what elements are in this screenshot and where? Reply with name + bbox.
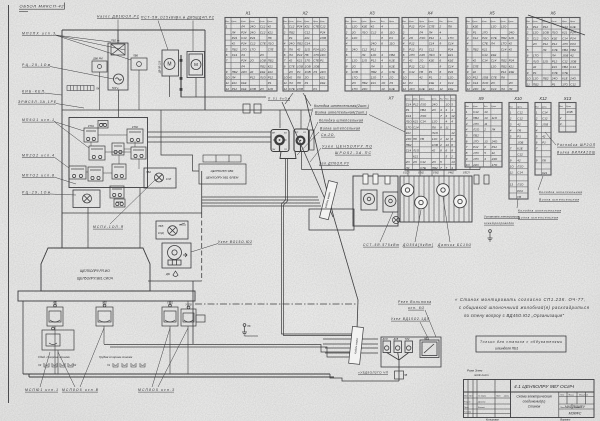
svg-text:2О: 2О [412, 160, 418, 164]
terminal table X9 [465, 103, 502, 168]
svg-text:17О: 17О [352, 76, 358, 80]
clamp Х3 b [52, 363, 57, 367]
leader to plug b [309, 122, 318, 141]
svg-text:Л4: Л4 [491, 128, 496, 132]
svg-text:24О: 24О [240, 70, 247, 74]
svg-text:ЦЕН5ОЛРУ.9В1 ФЛЕМ: ЦЕН5ОЛРУ.9В1 ФЛЕМ [206, 176, 239, 180]
control cabinet box [69, 118, 148, 188]
svg-text:42: 42 [482, 87, 486, 91]
leader РЦ lower [50, 194, 76, 195]
svg-text:С7Е: С7Е [389, 70, 396, 74]
svg-text:Дата: Дата [503, 396, 509, 398]
svg-text:Л1О: Л1О [361, 30, 369, 34]
limit switch У301 [162, 304, 178, 326]
svg-text:2: 2 [380, 70, 383, 74]
fan line X2 bottom b [303, 93, 311, 106]
svg-text:Дроздов: Дроздов [477, 401, 485, 404]
svg-text:1О: 1О [226, 76, 231, 80]
svg-text:1ОВ: 1ОВ [313, 64, 319, 68]
ls drop 3 [169, 326, 171, 374]
terminal table X10 [509, 103, 528, 200]
label У5Д50Л2ГО ЧП [358, 371, 389, 375]
svg-text:Климов: Климов [478, 407, 485, 409]
svg-text:Цепь: Цепь [352, 21, 357, 23]
svg-text:С12: С12 [429, 47, 435, 51]
svg-text:С14: С14 [305, 42, 311, 46]
svg-text:24О: 24О [472, 163, 479, 167]
svg-text:Р1: Р1 [320, 59, 324, 63]
svg-text:13: 13 [451, 160, 455, 164]
label Эл.м ДВ5ШД4П.РС [176, 16, 215, 20]
solenoid valve У5 [454, 195, 467, 208]
ls stub 2 [103, 301, 105, 306]
note установка электропроводки 2 [484, 221, 514, 225]
limit switch У30В [181, 306, 196, 326]
svg-text:Вилка ВИЛКА2ОШ: Вилка ВИЛКА2ОШ [557, 151, 595, 155]
svg-text:№ докум.: № докум. [478, 395, 487, 398]
label Узел ВО150.Ю2 [218, 240, 252, 244]
note Зел ДП60ЛРУ [319, 162, 350, 166]
mid bus y347 [110, 347, 352, 357]
leader МП202 [54, 157, 69, 168]
svg-text:12: 12 [451, 114, 455, 118]
svg-text:24О: 24О [249, 25, 256, 29]
machine boundary right upper [204, 30, 206, 110]
svg-text:У3б2: У3б2 [433, 172, 439, 175]
relay КТ61 [84, 128, 98, 142]
svg-text:Х1: Х1 [106, 363, 111, 367]
note вилка штепс [320, 127, 360, 131]
svg-text:С12: С12 [305, 30, 311, 34]
svg-text:К21: К21 [413, 154, 418, 158]
svg-text:1ОВ: 1ОВ [432, 143, 438, 147]
svg-text:ПБ2: ПБ2 [268, 59, 274, 63]
wire group to cable tag 1 [202, 196, 318, 198]
svg-text:Л4: Л4 [428, 30, 433, 34]
svg-text:5ОГц: 5ОГц [112, 86, 119, 90]
svg-text:11О: 11О [432, 120, 438, 124]
svg-text:1ОВ: 1ОВ [250, 87, 256, 91]
svg-text:Л1О: Л1О [532, 59, 540, 63]
svg-text:У3О1: У3О1 [167, 302, 174, 305]
svg-text:12: 12 [226, 87, 230, 91]
svg-text:Р12: Р12 [543, 42, 549, 46]
svg-text:Р24: Р24 [241, 59, 247, 63]
svg-text:ДО55А[9кВт]: ДО55А[9кВт] [402, 243, 433, 247]
svg-text:11: 11 [527, 82, 530, 86]
svg-text:С7Е: С7Е [552, 71, 559, 75]
svg-text:С14: С14 [482, 59, 488, 63]
svg-text:24О: 24О [472, 87, 479, 91]
svg-text:ВН: ВН [272, 133, 275, 135]
x9 stub [469, 167, 471, 170]
svg-text:С14: С14 [241, 36, 247, 40]
svg-text:С7Е: С7Е [562, 71, 569, 75]
terminal table X1 [225, 18, 277, 92]
svg-text:КТ61: КТ61 [88, 124, 95, 128]
svg-text:К21: К21 [297, 59, 302, 63]
fan leader 3 [55, 35, 131, 60]
svg-text:Цепь: Цепь [313, 21, 318, 23]
fuse right 1 [474, 175, 479, 184]
fuse stack 3 [385, 176, 390, 184]
terminal table X5 [466, 18, 518, 92]
svg-text:Р1: Р1 [419, 47, 423, 51]
svg-text:Р1: Р1 [473, 30, 477, 34]
svg-text:12: 12 [403, 87, 407, 91]
svg-text:Л4: Л4 [361, 53, 366, 57]
motor M2 drop [195, 78, 197, 98]
svg-text:С7Е: С7Е [482, 42, 489, 46]
svg-text:13: 13 [484, 139, 488, 143]
svg-text:Масса: Масса [569, 395, 575, 397]
label МП702 исп.8 [22, 174, 54, 178]
svg-text:С12: С12 [517, 110, 523, 114]
svg-text:ПБ2: ПБ2 [362, 81, 368, 85]
label Датчик БС150 [437, 243, 472, 247]
junction box ДВ6 [92, 61, 107, 72]
svg-text:ПБ2: ПБ2 [389, 53, 395, 57]
note узел ЦЕН50ЛРУ.ПО [322, 145, 372, 149]
note колодка штепс [319, 119, 363, 123]
svg-text:Р12: Р12 [371, 47, 377, 51]
leader to fuses [310, 148, 321, 162]
svg-text:1О: 1О [446, 102, 451, 106]
label Узел ВД1502.1ДЛ [391, 317, 430, 321]
svg-text:11О: 11О [533, 77, 539, 81]
svg-text:Л4: Л4 [508, 87, 513, 91]
svg-text:2О: 2О [431, 160, 437, 164]
svg-text:17О: 17О [473, 157, 479, 161]
svg-text:К21: К21 [268, 30, 273, 34]
leader распайка to X13 [545, 132, 556, 145]
svg-text:Л1О: Л1О [267, 42, 275, 46]
svg-text:ДВ-5Я О25: ДВ-5Я О25 [159, 60, 162, 74]
svg-text:Р24: Р24 [570, 36, 576, 40]
svg-text:Колодка штепсельная: Колодка штепсельная [319, 119, 363, 123]
clamp Х1 b [122, 363, 127, 367]
svg-text:шпинделя ПБ1: шпинделя ПБ1 [495, 347, 518, 351]
svg-text:Р12: Р12 [409, 64, 415, 68]
fan line X2 bottom a [285, 93, 293, 104]
svg-text:Цепь: Цепь [508, 21, 513, 23]
svg-text:К21: К21 [268, 70, 273, 74]
svg-text:12: 12 [446, 137, 450, 141]
wire bus y110 machine bottom [62, 109, 312, 111]
relay РВ1 [98, 121, 108, 129]
label МП202 исп.4 [22, 154, 54, 158]
svg-text:Вилка штепсельная: Вилка штепсельная [320, 127, 360, 131]
note колодка штепсельная 2шт [314, 104, 369, 108]
svg-text:Р24: Р24 [232, 36, 238, 40]
svg-text:Цепь: Цепь [409, 21, 414, 23]
svg-text:ДВ6.РМ: ДВ6.РМ [92, 57, 103, 61]
relay РП6 [89, 146, 105, 160]
svg-text:ПБ2: ПБ2 [562, 65, 568, 69]
svg-text:С7Е: С7Е [429, 25, 436, 29]
svg-text:42: 42 [473, 59, 477, 63]
svg-text:С14: С14 [413, 126, 419, 130]
relay МП65 [110, 186, 124, 198]
svg-text:Цепь: Цепь [570, 21, 575, 23]
svg-text:П6: П6 [432, 126, 436, 130]
svg-text:1О: 1О [381, 81, 386, 85]
note колодка штепсельная 2 [518, 209, 561, 213]
svg-text:Цепь: Цепь [491, 21, 496, 23]
svg-text:ПВ2 лк: ПВ2 лк [111, 39, 120, 43]
svg-text:Р24: Р24 [297, 25, 303, 29]
svg-text:1О: 1О [403, 76, 408, 80]
svg-text:24О: 24О [405, 137, 412, 141]
svg-text:Р12: Р12 [250, 76, 256, 80]
svg-text:17О: 17О [562, 42, 568, 46]
svg-text:К21: К21 [305, 25, 310, 29]
svg-text:2: 2 [345, 30, 348, 34]
terminal table X6 [526, 18, 580, 87]
relay РП7 [112, 143, 124, 155]
svg-text:ЛВ6: ЛВ6 [132, 54, 139, 58]
svg-text:ПБ2: ПБ2 [543, 77, 549, 81]
svg-text:42: 42 [533, 65, 537, 69]
svg-text:ЛК: ЛК [95, 87, 100, 91]
leader мсп2 b [80, 328, 104, 387]
fuse stack 1 [363, 174, 368, 184]
svg-text:С14: С14 [406, 114, 412, 118]
svg-text:П6: П6 [413, 137, 417, 141]
svg-text:24О: 24О [418, 53, 425, 57]
svg-text:Р1: Р1 [533, 71, 537, 75]
svg-text:Р12: Р12 [473, 76, 479, 80]
note СЯ-20 [321, 133, 335, 137]
terminal table X4 [402, 18, 458, 92]
svg-text:ПБ2: ПБ2 [473, 47, 479, 51]
svg-text:Цепь: Цепь [320, 21, 325, 23]
terminal table X12 [535, 103, 551, 176]
svg-text:КИБ-КЕП: КИБ-КЕП [22, 90, 45, 94]
svg-text:С7Е: С7Е [491, 36, 498, 40]
solenoid valve 2 [383, 192, 398, 212]
svg-text:Листов: Листов [573, 407, 581, 409]
svg-text:Х3: Х3 [37, 363, 42, 367]
box ДВ6 drop [99, 72, 101, 110]
label МП3ПХ исп.3 [22, 32, 55, 36]
table drop [431, 170, 433, 176]
note вилка штепсельная 2шт [315, 111, 367, 115]
leader to transformer [50, 67, 114, 80]
svg-text:Цепь: Цепь [260, 21, 265, 23]
machine boundary right dashed [201, 213, 203, 281]
svg-text:С12: С12 [371, 30, 377, 34]
ls stub 1 [54, 301, 56, 306]
pump motor M1 [164, 59, 175, 70]
svg-text:Цепь: Цепь [419, 21, 424, 23]
svg-text:Р1: Р1 [268, 81, 272, 85]
internal cabinet wiring [86, 135, 139, 173]
fan leader 1 [55, 35, 111, 42]
svg-text:Р24: Р24 [241, 30, 247, 34]
svg-text:Л1О: Л1О [419, 102, 427, 106]
label ДО55А 9кВт [402, 243, 433, 247]
motor M1 drop [169, 76, 171, 97]
svg-text:ЛБ5: ЛБ5 [157, 224, 164, 228]
svg-text:Р24: Р24 [320, 30, 326, 34]
svg-text:Колодка штепсельная(2шт.): Колодка штепсельная(2шт.) [314, 104, 369, 108]
lamp box ЛБ5 [156, 221, 188, 239]
svg-text:1О: 1О [510, 165, 515, 169]
label ПСТ-5Я 0.25кВт [141, 16, 177, 20]
svg-text:Л1О: Л1О [412, 149, 420, 153]
wire group to cable tag 3 [202, 202, 320, 204]
svg-text:Р12: Р12 [543, 25, 549, 29]
svg-text:ЩЕЛ5ОЛРУ.РЛ.ИО: ЩЕЛ5ОЛРУ.РЛ.ИО [80, 269, 110, 273]
svg-text:С12: С12 [517, 116, 523, 120]
svg-text:С14: С14 [491, 87, 497, 91]
svg-text:42: 42 [371, 25, 375, 29]
label РЦ-29 1Ом lower [22, 191, 51, 195]
pedestal cabinet [18, 248, 195, 301]
svg-text:Р12: Р12 [232, 87, 238, 91]
drawing code top-left [19, 3, 65, 12]
note вилка штепсельная 2 [518, 216, 558, 220]
svg-text:П.51 8кОм: П.51 8кОм [268, 97, 290, 101]
svg-text:С12: С12 [570, 82, 576, 86]
svg-text:11О: 11О [362, 59, 368, 63]
svg-text:Р12: Р12 [552, 59, 558, 63]
svg-text:С12: С12 [533, 36, 539, 40]
svg-text:42: 42 [542, 135, 546, 139]
svg-text:Цепь: Цепь [297, 21, 302, 23]
wire group to cable tag 4 [202, 205, 321, 207]
clamp Х3 a [44, 363, 49, 367]
svg-text:С12: С12 [260, 25, 266, 29]
svg-text:Л1О: Л1О [481, 81, 489, 85]
svg-text:С12: С12 [260, 30, 266, 34]
limit switch УП2 [96, 304, 113, 326]
svg-text:1ОВ: 1ОВ [320, 36, 326, 40]
svg-text:К21: К21 [268, 64, 273, 68]
svg-text:42: 42 [432, 149, 436, 153]
solenoid box left [353, 176, 398, 226]
drop to plug Ш2 [300, 110, 302, 129]
svg-text:С12: С12 [419, 64, 425, 68]
svg-text:17О: 17О [406, 126, 412, 130]
mode text box ЦЕН50ЛРУ [199, 164, 246, 184]
svg-text:Р1: Р1 [552, 82, 556, 86]
svg-text:11О: 11О [448, 76, 454, 80]
leader мсп3 a [152, 328, 170, 387]
note колодка штепсельная 1 [539, 190, 582, 194]
svg-text:1ОВ: 1ОВ [352, 70, 358, 74]
svg-text:С7Е: С7Е [260, 42, 267, 46]
svg-text:ПБ2: ПБ2 [562, 48, 568, 52]
svg-text:Х12: Х12 [538, 96, 547, 101]
svg-text:12: 12 [284, 87, 288, 91]
svg-text:С14: С14 [473, 110, 479, 114]
svg-text:17О: 17О [409, 53, 415, 57]
lamp ЛБ5 [168, 226, 178, 236]
label ССТ-5Я 575кВт [363, 243, 399, 247]
svg-text:42: 42 [509, 47, 513, 51]
machine lower right drop [192, 281, 194, 344]
svg-text:11О: 11О [509, 36, 515, 40]
svg-text:С7Е: С7Е [491, 76, 498, 80]
svg-text:Х9: Х9 [477, 96, 484, 101]
svg-text:1ОВ: 1ОВ [542, 123, 548, 127]
note раcпайка ШР20П [557, 143, 596, 147]
svg-text:2: 2 [483, 128, 486, 132]
svg-text:11О: 11О [389, 30, 395, 34]
svg-text:24О: 24О [288, 42, 295, 46]
svg-text:Л1О: Л1О [551, 31, 559, 35]
fuse stack 2 [373, 174, 378, 184]
plug connector Ш1 [271, 130, 289, 152]
svg-text:МСП4-1ОЛ.Я: МСП4-1ОЛ.Я [93, 225, 124, 229]
svg-text:17О: 17О [501, 42, 507, 46]
wire cabinet to plug 3 [148, 141, 272, 143]
svg-text:Узел ВД15О2.1ДЛ: Узел ВД15О2.1ДЛ [391, 317, 430, 321]
svg-text:Цепь: Цепь [250, 21, 255, 23]
svg-text:17О: 17О [250, 47, 256, 51]
note ШРО52-3А ПС [335, 151, 371, 155]
svg-text:П6: П6 [419, 70, 423, 74]
svg-text:ПБ2: ПБ2 [533, 82, 539, 86]
svg-text:МСП8О5 исп.В: МСП8О5 исп.В [62, 388, 99, 392]
svg-text:24О: 24О [491, 157, 498, 161]
svg-text:П6: П6 [297, 81, 301, 85]
label МСП805 исп.3 [138, 388, 174, 392]
wire group to cable tag 2 [202, 199, 319, 201]
svg-text:12: 12 [451, 131, 455, 135]
relay МП62 [88, 167, 103, 181]
svg-text:11: 11 [484, 122, 487, 126]
machine boundary top [62, 29, 205, 31]
svg-text:У3ОВ: У3ОВ [185, 304, 192, 307]
solenoid valve У2 [401, 184, 414, 197]
svg-text:С12: С12 [362, 47, 368, 51]
table drop [443, 170, 445, 176]
svg-text:Л1О: Л1О [516, 183, 524, 187]
svg-text:Р12: Р12 [371, 59, 377, 63]
drop to plug Ш1 [279, 110, 281, 128]
svg-text:1ОВ: 1ОВ [517, 141, 523, 145]
relay МП63 [112, 164, 126, 179]
svg-text:2О: 2О [351, 64, 357, 68]
svg-text:Копировал: Копировал [486, 418, 499, 421]
label исп 60 [408, 306, 425, 310]
terminal table X7 [405, 95, 456, 170]
relay РП8 [131, 147, 146, 159]
drop from plug Ш1 right pin [284, 158, 353, 336]
svg-text:Цепь: Цепь [473, 106, 478, 108]
svg-text:42: 42 [517, 122, 521, 126]
solenoid valve 1 [361, 190, 377, 210]
cabinet drop 1 [87, 208, 89, 249]
svg-text:2О: 2О [418, 59, 424, 63]
svg-text:ПБ2: ПБ2 [406, 143, 412, 147]
svg-text:КТ62: КТ62 [132, 125, 139, 129]
svg-text:К21: К21 [413, 120, 418, 124]
svg-text:42: 42 [268, 25, 272, 29]
svg-text:Установка электропров.: Установка электропров. [484, 215, 520, 219]
svg-text:ПН: ПН [272, 149, 276, 151]
svg-text:К21: К21 [232, 81, 237, 85]
svg-text:1ОВ: 1ОВ [570, 59, 576, 63]
svg-text:Цепь: Цепь [289, 21, 294, 23]
svg-text:по№ лист: по№ лист [474, 373, 489, 377]
svg-text:С12: С12 [542, 116, 548, 120]
svg-text:17О: 17О [313, 53, 319, 57]
svg-text:У2б2: У2б2 [418, 172, 424, 175]
